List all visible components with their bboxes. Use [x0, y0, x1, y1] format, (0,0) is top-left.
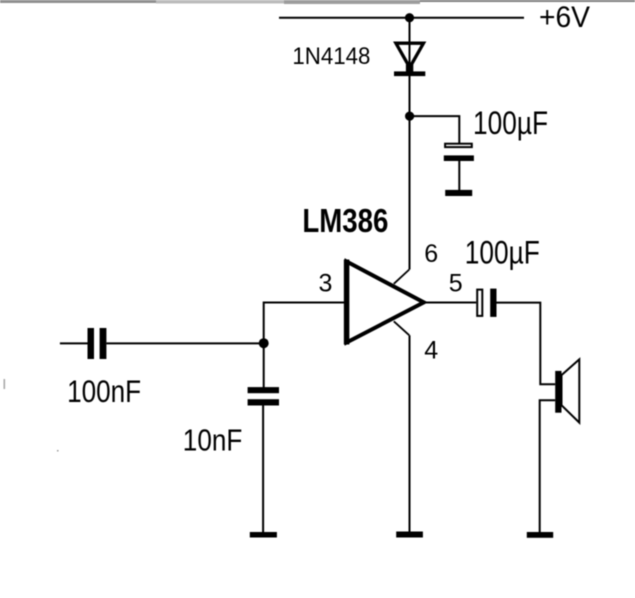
node junction below diode	[405, 112, 414, 121]
wire node A down to C3	[263, 343, 265, 387]
wire node A up to pin 3	[264, 303, 346, 344]
svg-text:100µF: 100µF	[473, 105, 548, 141]
ground under C3	[250, 532, 277, 538]
svg-text:3: 3	[319, 270, 333, 298]
pin 4 stub	[394, 321, 410, 335]
svg-text:10nF: 10nF	[183, 424, 243, 457]
svg-text:4: 4	[424, 337, 438, 365]
screenshot artifact top bar mid	[156, 0, 284, 4]
ground under speaker	[527, 532, 553, 538]
wire diode cathode down to pin6 feed	[409, 74, 411, 270]
screenshot artifact speck	[57, 450, 59, 452]
svg-text:1N4148: 1N4148	[292, 43, 370, 70]
wire input source	[60, 342, 88, 344]
svg-text:5: 5	[449, 270, 463, 298]
capacitor C1 negative plate	[444, 155, 474, 161]
wire junction to C1	[410, 116, 460, 143]
wire rail to diode anode	[409, 18, 411, 72]
speaker SP1 driver	[555, 371, 561, 413]
node A input junction	[259, 338, 269, 348]
screenshot artifact top bar left	[0, 0, 156, 3]
wire C2 to node A	[106, 342, 263, 344]
wire pin 4 to ground	[409, 335, 411, 532]
ground under pin 4	[396, 532, 423, 538]
svg-text:LM386: LM386	[302, 202, 388, 239]
capacitor C4 negative plate	[490, 289, 496, 317]
capacitor C2 100nF plate1	[88, 328, 95, 359]
svg-text:6: 6	[424, 240, 438, 268]
wire +6V rail	[279, 17, 524, 19]
speaker SP1 cone	[562, 359, 580, 422]
pin 6 stub	[394, 270, 410, 284]
capacitor C1 100uF positive plate	[445, 144, 472, 147]
screenshot artifact top bar right	[420, 0, 635, 2]
ground under C1	[445, 190, 472, 196]
svg-text:+6V: +6V	[539, 1, 590, 34]
wire C4 to speaker top terminal	[497, 303, 556, 385]
svg-text:100µF: 100µF	[465, 235, 540, 271]
op-amp U1 LM386 triangle	[347, 262, 424, 343]
capacitor C4 100uF positive plate	[477, 290, 482, 316]
wire speaker bottom terminal to ground	[540, 400, 556, 532]
wire C1 to ground	[458, 161, 460, 192]
wire C3 to ground	[262, 405, 264, 533]
capacitor C3 10nF plate2	[248, 399, 279, 405]
diode D1 1N4148	[396, 43, 424, 67]
svg-text:100nF: 100nF	[67, 373, 141, 409]
screenshot artifact top bar mid2	[284, 0, 420, 4]
node junction on +6V rail	[405, 13, 414, 22]
capacitor C3 10nF plate1	[248, 387, 279, 393]
screenshot artifact left edge dash	[4, 379, 6, 389]
capacitor C2 100nF plate2	[100, 328, 107, 359]
wire op-amp output pin 5	[424, 302, 476, 304]
